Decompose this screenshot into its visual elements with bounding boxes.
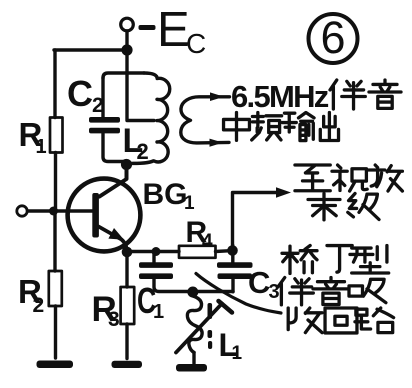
svg-text:2: 2 xyxy=(137,139,149,164)
svg-text:3: 3 xyxy=(108,308,120,331)
svg-text:C: C xyxy=(248,265,270,300)
svg-text:4: 4 xyxy=(202,231,213,252)
svg-text:1: 1 xyxy=(153,301,164,323)
svg-text:E: E xyxy=(157,3,190,57)
svg-text:C: C xyxy=(186,28,206,59)
svg-text:C: C xyxy=(67,73,93,114)
svg-text:6.5MHz: 6.5MHz xyxy=(231,79,329,114)
svg-text:6: 6 xyxy=(320,12,345,63)
svg-text:1: 1 xyxy=(232,343,243,364)
svg-text:2: 2 xyxy=(92,94,104,117)
svg-text:BG: BG xyxy=(143,178,188,211)
svg-text:1: 1 xyxy=(184,193,195,214)
svg-text:2: 2 xyxy=(33,294,45,317)
svg-text:1: 1 xyxy=(36,136,47,158)
